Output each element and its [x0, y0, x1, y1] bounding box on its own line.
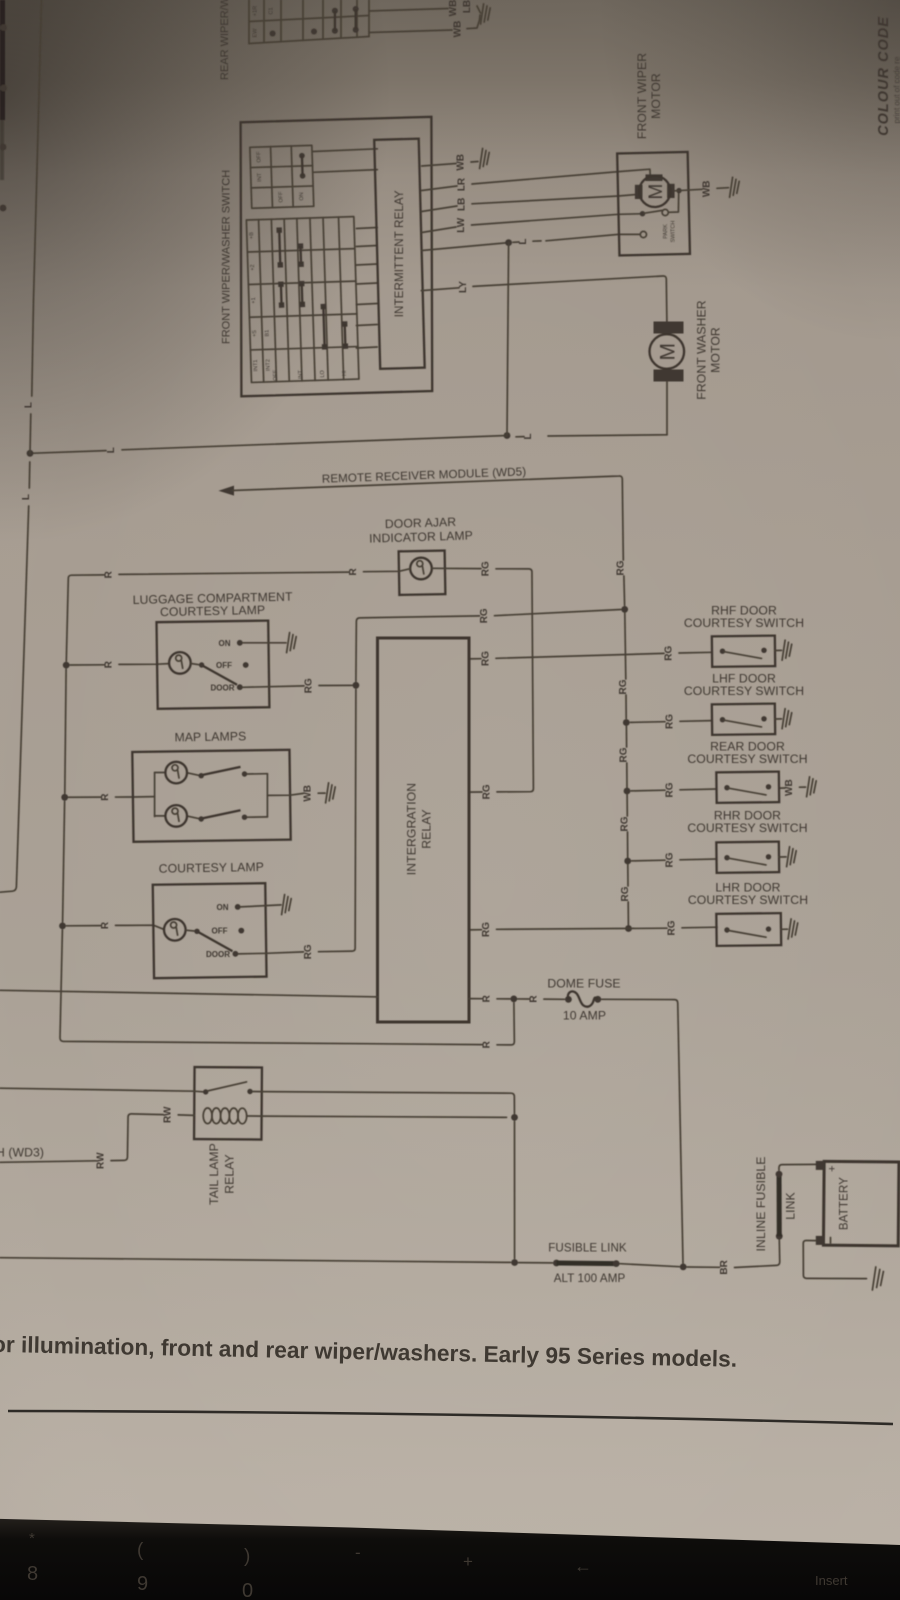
front washer motor M2 — [650, 322, 685, 435]
svg-text:COLOUR CODE: COLOUR CODE — [876, 16, 892, 136]
svg-text:Insert: Insert — [815, 1573, 848, 1588]
svg-text:MAP LAMPS: MAP LAMPS — [174, 729, 246, 744]
wire WB to ground (wiper switch) — [422, 164, 456, 167]
node RG bus REAR — [624, 788, 631, 795]
wire battery negative to ground — [803, 1241, 866, 1279]
svg-text:COURTESY SWITCH: COURTESY SWITCH — [687, 752, 807, 766]
svg-text:(: ( — [137, 1540, 144, 1561]
svg-text:COURTESY SWITCH: COURTESY SWITCH — [688, 893, 808, 907]
svg-text:LB: LB — [462, 0, 473, 13]
svg-text:RG: RG — [481, 561, 492, 576]
courtesy lamp L4 — [153, 883, 304, 978]
svg-text:RW: RW — [96, 1152, 107, 1169]
svg-text:MOTOR: MOTOR — [709, 327, 723, 373]
svg-text:PARK: PARK — [663, 224, 669, 239]
fusible link ALT 100 AMP F2 — [553, 1260, 620, 1267]
svg-text:*: * — [29, 1530, 35, 1547]
svg-text:HI: HI — [342, 370, 348, 376]
svg-text:): ) — [244, 1546, 250, 1567]
wire RG relay pin to LHR switch — [469, 929, 482, 931]
svg-text:DOME FUSE: DOME FUSE — [547, 977, 620, 991]
svg-text:WB: WB — [303, 785, 314, 802]
svg-text:R: R — [348, 568, 359, 576]
wire WB to ground — [369, 30, 452, 33]
svg-text:print out of code re: print out of code re — [893, 56, 900, 123]
wire RG bus to RHR switch — [632, 859, 665, 862]
main wiper switch grid — [246, 217, 359, 383]
svg-text:RG: RG — [664, 645, 675, 660]
svg-text:RG: RG — [479, 608, 490, 623]
wire R relay to dome fuse — [469, 998, 482, 1000]
svg-text:0: 0 — [242, 1580, 253, 1600]
tail lamp relay K1 — [194, 1067, 262, 1139]
wire LW — [422, 227, 456, 233]
svg-text:LY: LY — [458, 281, 469, 293]
svg-text:RG: RG — [481, 651, 492, 666]
svg-text:RG: RG — [303, 944, 314, 959]
svg-text:RW: RW — [163, 1106, 174, 1123]
node RG bus / door-ajar feed — [621, 606, 628, 613]
horizontal rule under caption — [8, 1411, 893, 1424]
svg-text:FRONT WASHER: FRONT WASHER — [695, 300, 709, 399]
svg-text:-: - — [355, 1543, 361, 1562]
svg-text:WB: WB — [784, 779, 795, 796]
svg-text:COURTESY SWITCH: COURTESY SWITCH — [684, 616, 804, 630]
svg-text:INT1: INT1 — [253, 359, 259, 371]
wire after dome fuse to riser — [602, 999, 683, 1263]
wire coil right to riser — [247, 1116, 507, 1117]
svg-text:WB: WB — [456, 154, 467, 171]
dome fuse F1 10A — [565, 991, 601, 1006]
node L left junction — [27, 450, 34, 457]
svg-text:TAIL LAMP: TAIL LAMP — [207, 1143, 221, 1205]
svg-text:9: 9 — [137, 1573, 148, 1595]
svg-text:INT2: INT2 — [265, 359, 271, 371]
wire LR — [422, 186, 457, 191]
wire RG bus to REAR switch — [631, 789, 665, 792]
intermittent relay U1 — [374, 139, 424, 369]
wire WB from motor — [676, 188, 681, 193]
svg-text:RG: RG — [481, 922, 492, 937]
keyboard band at bottom — [0, 1519, 900, 1600]
svg-text:FRONT WIPER: FRONT WIPER — [635, 53, 649, 139]
svg-text:8: 8 — [27, 1563, 38, 1585]
wire R bus left vertical — [66, 579, 68, 661]
svg-text:OFF: OFF — [212, 927, 228, 936]
svg-text:RG: RG — [620, 886, 631, 901]
svg-text:RG: RG — [616, 560, 627, 575]
svg-text:INT: INT — [257, 172, 263, 182]
svg-text:OFF: OFF — [278, 191, 284, 203]
svg-text:BATTERY: BATTERY — [838, 1177, 851, 1230]
svg-text:INLINE FUSIBLE: INLINE FUSIBLE — [754, 1157, 768, 1252]
svg-text:+1R: +1R — [253, 6, 259, 16]
svg-text:LB: LB — [457, 198, 468, 211]
wire L main left vertical — [32, 0, 42, 396]
svg-text:WB: WB — [448, 0, 459, 16]
wire L vertical between junctions — [507, 243, 509, 436]
svg-text:B1: B1 — [264, 330, 270, 337]
RHR door courtesy switch S4 — [716, 842, 796, 873]
svg-text:WB: WB — [453, 21, 464, 38]
front wiper motor M1 — [617, 152, 739, 256]
left page-edge shading — [0, 0, 5, 120]
LHR door courtesy switch S5 — [716, 913, 797, 946]
svg-text:+1: +1 — [251, 297, 257, 303]
svg-text:RELAY: RELAY — [420, 809, 434, 849]
wire/arrow to remote receiver module — [219, 486, 235, 496]
node coil riser — [511, 1114, 518, 1121]
svg-text:+: + — [463, 1552, 473, 1571]
wire R to map lamps — [69, 796, 101, 798]
svg-text:OFF: OFF — [256, 151, 262, 163]
svg-text:DOOR: DOOR — [206, 950, 230, 959]
svg-text:LO: LO — [320, 369, 326, 377]
svg-text:COURTESY SWITCH: COURTESY SWITCH — [687, 821, 807, 835]
svg-text:INTERGRATION: INTERGRATION — [405, 783, 419, 875]
RHF door courtesy switch S1 — [712, 636, 792, 667]
wire L washer bottom — [548, 435, 667, 436]
svg-text:COURTESY SWITCH: COURTESY SWITCH — [684, 684, 804, 698]
svg-text:C1: C1 — [269, 7, 275, 14]
svg-text:FRONT WIPER/WASHER SWITCH: FRONT WIPER/WASHER SWITCH — [221, 170, 233, 344]
node RG bus LHR end — [625, 925, 632, 932]
svg-text:SWITCH: SWITCH — [671, 221, 677, 243]
svg-text:RG: RG — [304, 678, 315, 693]
battery BT1 — [816, 1161, 899, 1246]
svg-text:ALT 100 AMP: ALT 100 AMP — [554, 1272, 626, 1285]
svg-text:+: + — [827, 1165, 839, 1171]
wire R to luggage lamp — [70, 664, 104, 666]
node R / dome fuse — [510, 996, 517, 1003]
inline fusible link F3 — [776, 1171, 783, 1240]
svg-text:L: L — [21, 494, 32, 500]
svg-text:ON: ON — [299, 192, 305, 200]
svg-text:LINK: LINK — [784, 1192, 798, 1220]
svg-text:R: R — [104, 660, 115, 668]
svg-text:RG: RG — [619, 816, 630, 831]
rear wiper/washer switch table — [249, 0, 369, 44]
svg-text:ON: ON — [219, 639, 231, 648]
svg-text:+S: +S — [252, 330, 258, 337]
svg-text:H (WD3): H (WD3) — [0, 1146, 44, 1160]
wire R to courtesy lamp — [67, 925, 101, 927]
svg-text:R: R — [100, 921, 111, 929]
svg-text:REAR WIPER/WASHER SWITCH: REAR WIPER/WASHER SWITCH — [219, 0, 231, 80]
svg-text:OFF: OFF — [273, 369, 279, 381]
ground (battery) — [872, 1267, 883, 1290]
node RG left bus / luggage — [353, 682, 360, 689]
svg-text:R: R — [482, 994, 493, 1002]
node L junction upper — [505, 239, 512, 246]
svg-text:MOTOR: MOTOR — [649, 73, 663, 119]
svg-text:R: R — [104, 570, 115, 578]
svg-text:COURTESY LAMP: COURTESY LAMP — [159, 860, 264, 876]
svg-text:R: R — [528, 995, 539, 1003]
svg-text:EW: EW — [253, 28, 259, 38]
integration relay U2 — [378, 638, 470, 1022]
svg-text:RG: RG — [619, 747, 630, 762]
ground (switch WB) — [480, 149, 490, 169]
svg-text:L: L — [23, 402, 34, 408]
svg-text:M: M — [646, 184, 667, 200]
LHF door courtesy switch S2 — [712, 704, 792, 735]
wire L horizontal to left — [122, 436, 507, 450]
svg-text:COURTESY LAMP: COURTESY LAMP — [160, 603, 265, 619]
svg-text:LR: LR — [457, 177, 468, 191]
wire LY — [421, 288, 459, 291]
luggage compartment courtesy lamp L1 — [157, 621, 352, 709]
svg-text:DOOR: DOOR — [211, 683, 235, 692]
wire RG door ajar to riser — [432, 567, 481, 569]
svg-text:L: L — [106, 447, 117, 453]
wire tail relay switch feed (left edge) — [0, 1088, 203, 1092]
svg-text:ON: ON — [217, 903, 229, 912]
svg-text:L: L — [518, 239, 529, 245]
svg-text:OFF: OFF — [216, 661, 232, 670]
svg-text:+2: +2 — [250, 264, 256, 270]
wires wiper grid to intermittent relay — [356, 228, 377, 349]
node stub dots on left edge — [0, 24, 7, 211]
wire battery feed (left edge) with ALT fusible link — [0, 1258, 511, 1263]
svg-text:RG: RG — [667, 920, 678, 935]
washer switch sub-table — [250, 145, 314, 208]
svg-text:RG: RG — [618, 679, 629, 694]
wire RG bus to LHF switch — [630, 721, 665, 724]
svg-text:R: R — [100, 793, 111, 801]
svg-text:←: ← — [574, 1556, 592, 1576]
door ajar indicator lamp — [399, 551, 446, 595]
svg-text:M: M — [657, 343, 680, 361]
node L junction lower — [504, 432, 511, 439]
ground (rear wiper) — [481, 4, 491, 24]
wire WB rear switch to ground — [779, 787, 785, 789]
svg-text:10 AMP: 10 AMP — [563, 1008, 606, 1022]
svg-text:+B: +B — [249, 232, 255, 239]
wire R top (bus to door ajar lamp) — [68, 575, 104, 579]
svg-text:RG: RG — [665, 714, 676, 729]
wire RG relay pin to RHF switch — [469, 658, 482, 660]
svg-text:INTERMITTENT RELAY: INTERMITTENT RELAY — [393, 190, 406, 317]
svg-text:RG: RG — [482, 784, 493, 799]
node riser/fusible wire — [511, 1259, 518, 1266]
svg-text:FUSIBLE LINK: FUSIBLE LINK — [548, 1242, 627, 1255]
node dome riser / battery wire — [680, 1264, 687, 1271]
wires washer table to intermittent relay — [313, 149, 378, 173]
front wiper/washer switch outer box — [241, 117, 433, 397]
wire LB — [422, 206, 457, 212]
svg-text:WB: WB — [702, 180, 713, 197]
park switch — [640, 211, 645, 216]
wire L from switch — [422, 243, 509, 251]
svg-text:BR: BR — [719, 1259, 730, 1274]
wire RW coil left — [178, 1114, 194, 1117]
svg-text:R: R — [482, 1040, 493, 1048]
svg-text:LW: LW — [456, 217, 467, 233]
svg-text:RG: RG — [665, 852, 676, 867]
svg-text:INT: INT — [298, 369, 304, 379]
ground (wiper motor) — [730, 177, 740, 197]
wire R long (left edge to relay) — [0, 990, 378, 997]
svg-text:RELAY: RELAY — [223, 1154, 237, 1194]
wire LB to top-right — [369, 9, 448, 12]
REAR door courtesy switch S3 — [716, 772, 779, 803]
svg-text:RG: RG — [665, 782, 676, 797]
node RG bus LHF — [623, 719, 630, 726]
caption text — [0, 1331, 737, 1372]
wire tail relay switch out to riser — [253, 1092, 515, 1114]
node RG bus RHR — [624, 858, 631, 865]
map lamps L2 L3 — [132, 750, 335, 842]
